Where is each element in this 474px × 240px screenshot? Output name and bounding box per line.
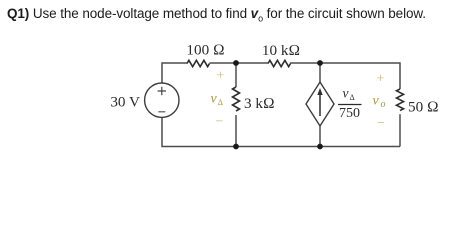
svg-text:v: v	[373, 94, 380, 109]
arrow inside diamond	[319, 92, 321, 116]
title text	[7, 6, 426, 24]
resistor R2 10 kohm	[268, 60, 291, 66]
wire right bottom	[399, 114, 401, 146]
resistor R3 3 kohm vertical	[233, 87, 240, 111]
svg-text:o: o	[381, 99, 386, 110]
svg-text:10 kΩ: 10 kΩ	[262, 42, 300, 59]
wire 3k branch top	[235, 63, 237, 87]
svg-text:100 Ω: 100 Ω	[186, 42, 224, 59]
node dot bottom-left junction	[233, 144, 239, 150]
wire top right	[290, 63, 400, 89]
svg-text:Δ: Δ	[350, 93, 355, 102]
voltage source V1 30V circle	[145, 83, 179, 117]
svg-text:v: v	[343, 86, 349, 101]
wire bottom	[162, 118, 400, 147]
svg-text:50 Ω: 50 Ω	[408, 98, 439, 115]
wire top-left segment	[162, 63, 187, 83]
svg-text:+: +	[377, 71, 385, 86]
svg-text:750: 750	[339, 106, 360, 121]
node dot top-left junction	[233, 60, 239, 66]
svg-text:3 kΩ: 3 kΩ	[244, 95, 275, 112]
svg-text:Δ: Δ	[218, 98, 223, 107]
wire dependent source branch top	[319, 63, 321, 82]
svg-text:v: v	[211, 92, 218, 107]
resistor R1 100 ohm	[187, 60, 210, 66]
wire top middle	[210, 62, 269, 64]
minus sign inside source	[158, 111, 165, 113]
wire 3k branch bottom	[235, 115, 237, 147]
svg-text:−: −	[377, 116, 385, 131]
svg-text:−: −	[216, 115, 224, 130]
svg-text:+: +	[216, 69, 224, 84]
node dot top-right junction	[317, 60, 323, 66]
wire dependent source branch bottom	[319, 126, 321, 147]
dependent current source U1 diamond	[306, 82, 334, 126]
svg-text:30 V: 30 V	[110, 94, 140, 111]
node dot bottom-right junction	[317, 144, 323, 150]
plus sign inside source	[158, 87, 166, 95]
resistor R4 50 ohm vertical	[397, 89, 404, 111]
